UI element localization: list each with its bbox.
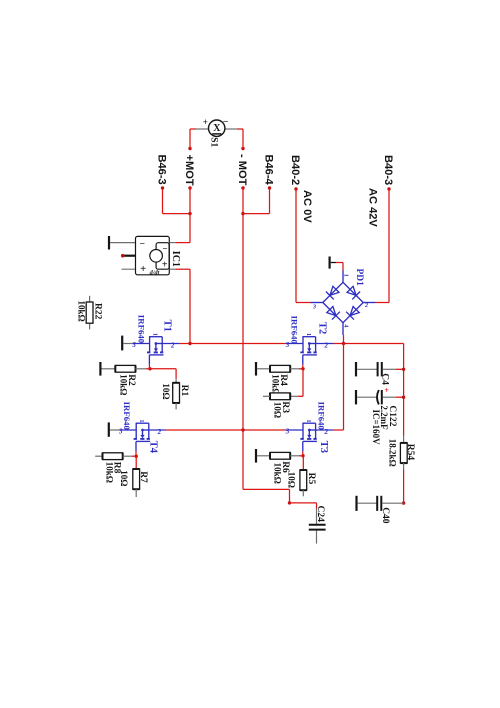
svg-text:B46-3: B46-3 <box>156 155 168 185</box>
capacitor C122 <box>377 390 382 404</box>
bridge left pin stub <box>311 302 323 304</box>
resistor R8 right lead <box>123 455 137 457</box>
wire minus rail to right column <box>344 344 404 436</box>
resistor R8 left stub <box>95 455 102 457</box>
node +MOT lower dot <box>188 186 191 189</box>
resistor R7 <box>133 469 140 489</box>
wire bridge top to bar <box>331 263 343 271</box>
ground bar bridge top <box>329 257 331 269</box>
capacitor C24 <box>309 525 326 530</box>
capacitor C4 name <box>380 373 390 385</box>
svg-text:AC 0V: AC 0V <box>301 190 313 223</box>
svg-text:C24: C24 <box>315 506 325 523</box>
IC1 outer minus mark <box>140 240 145 250</box>
capacitor C40 left lead <box>358 502 377 504</box>
resistor R7 value <box>119 470 129 486</box>
wire B40-2 / AC 0V to bridge AC1 <box>296 189 311 303</box>
svg-text:T4: T4 <box>147 441 158 454</box>
svg-text:- MOT: - MOT <box>236 154 248 186</box>
svg-text:AC 42V: AC 42V <box>366 188 378 227</box>
node -MOT lower dot <box>241 186 244 189</box>
node B46-4 terminal label <box>263 155 275 186</box>
bridge pin 2 mark <box>364 303 368 309</box>
svg-text:10kΩ: 10kΩ <box>105 462 115 483</box>
junction C4 on rail <box>402 368 405 371</box>
svg-text:3: 3 <box>131 341 136 349</box>
resistor R6 name <box>280 461 290 473</box>
resistor R4 left lead <box>257 368 270 370</box>
svg-text:S1: S1 <box>209 137 219 147</box>
resistor R22 leads <box>89 296 91 330</box>
wire bottom to C24 <box>290 503 317 509</box>
resistor R5 <box>300 470 307 490</box>
node B40-3 terminal dot <box>387 187 390 190</box>
bridge pin 1 mark <box>343 274 349 277</box>
wire IC1 bottom-right to T1 drain <box>169 269 190 343</box>
svg-text:IRF640: IRF640 <box>122 402 132 431</box>
capacitor C122 value <box>379 405 389 430</box>
motor S1 right wire <box>225 129 243 149</box>
resistor R22 <box>86 302 93 323</box>
resistor R3 <box>270 393 290 400</box>
wire R6 junction to R5 <box>302 456 304 470</box>
IC1 middle pin thick stub <box>124 255 136 257</box>
svg-text:B40-3: B40-3 <box>382 155 394 185</box>
wire T4 source to R8 junction <box>135 451 137 456</box>
capacitor C24 bottom stub <box>316 531 318 544</box>
junction C122 on rail <box>402 396 405 399</box>
ground bar R6 <box>255 449 257 463</box>
IC1 outer plus mark <box>140 263 146 275</box>
IC1 left top pin wire <box>110 242 135 244</box>
resistor R54 bottom lead <box>403 463 405 503</box>
svg-text:C4: C4 <box>380 373 390 385</box>
svg-text:d/dt: d/dt <box>150 269 160 276</box>
resistor R6 value <box>273 463 283 484</box>
svg-text:R22: R22 <box>93 303 103 320</box>
resistor R4 <box>270 365 290 372</box>
svg-text:PD1: PD1 <box>354 269 364 287</box>
IC1 left bottom pin wire <box>122 268 136 270</box>
junction +MOT/B46-3 <box>188 212 191 215</box>
svg-text:3: 3 <box>285 428 290 436</box>
svg-text:10kΩ: 10kΩ <box>118 374 128 395</box>
capacitor C122 plus mark <box>384 386 389 395</box>
wire T3 source to R6 junction <box>302 451 304 456</box>
resistor R1 <box>173 383 180 403</box>
wire B46-3 to +MOT junction <box>163 189 191 214</box>
svg-text:IRF640: IRF640 <box>289 316 299 345</box>
wire T1 gate bar to pin <box>123 343 132 345</box>
svg-text:1: 1 <box>152 333 159 336</box>
wire +MOT to IC1 pin top-right <box>169 214 190 243</box>
bridge PD1 name <box>354 269 364 287</box>
transistor T1 <box>131 315 179 365</box>
svg-text:1: 1 <box>305 333 312 336</box>
ground bar C4 <box>355 362 357 376</box>
svg-text:B46-4: B46-4 <box>263 155 275 186</box>
resistor R1 bottom stub <box>175 403 177 409</box>
motor S1 minus mark <box>222 116 228 126</box>
svg-text:−: − <box>162 243 167 253</box>
wire T1 source to R2 junction <box>148 365 150 369</box>
svg-text:T2: T2 <box>316 322 327 334</box>
svg-text:10Ω: 10Ω <box>161 383 171 399</box>
ground bar R2 <box>99 362 101 376</box>
svg-text:+: + <box>140 263 146 275</box>
wire B46-4 to -MOT junction <box>243 189 270 214</box>
motor S1 name <box>209 137 219 147</box>
svg-text:1: 1 <box>305 419 312 422</box>
bridge bottom pin stub <box>342 323 344 336</box>
capacitor C40 right lead <box>382 502 403 504</box>
node B46-3 terminal label <box>156 155 168 185</box>
junction bridge minus rail <box>342 342 345 345</box>
IC1 name <box>170 251 181 267</box>
node +MOT upper dot <box>188 147 191 150</box>
resistor R3 right lead <box>290 395 298 397</box>
node AC 0V label <box>301 190 313 223</box>
resistor R6 left lead <box>257 455 270 457</box>
junction -MOT on T4 drain rail <box>241 428 244 431</box>
svg-text:–: – <box>222 116 228 126</box>
svg-text:IRF640: IRF640 <box>317 402 327 431</box>
ground bar C40 <box>355 496 357 511</box>
transistor T3 <box>285 402 333 453</box>
svg-text:2: 2 <box>170 341 175 349</box>
svg-text:10Ω: 10Ω <box>119 470 129 486</box>
svg-text:+: + <box>384 386 389 395</box>
junction -MOT/B46-4 <box>241 212 244 215</box>
ground bar T1 gate <box>121 336 123 351</box>
node +MOT label <box>183 155 195 186</box>
capacitor C24 name <box>315 506 325 523</box>
junction T2 source <box>301 367 304 370</box>
svg-text:10kΩ: 10kΩ <box>273 463 283 484</box>
wire -MOT vertical bus <box>242 188 244 430</box>
resistor R1 name <box>179 385 189 397</box>
junction R54 / C40 <box>402 501 405 504</box>
motor S1 body <box>209 120 225 136</box>
op-amp IC1 body <box>136 236 170 274</box>
resistor R2 name <box>126 374 136 386</box>
wire T2 drain to bridge junction <box>333 343 344 345</box>
capacitor C40 <box>377 496 381 511</box>
IC1 inner plus mark <box>162 259 168 270</box>
resistor R7 name <box>138 471 148 483</box>
junction T4 source <box>135 455 138 458</box>
ground bar IC1 left pin <box>108 236 110 250</box>
junction T3 source <box>301 454 304 457</box>
transistor T2 <box>285 316 333 365</box>
junction T1 source <box>148 367 151 370</box>
svg-text:R54: R54 <box>405 444 415 461</box>
wire R2 junction to R1 <box>150 369 176 379</box>
svg-text:2: 2 <box>157 428 162 436</box>
junction bottom wire <box>288 501 291 504</box>
resistor R6 right lead <box>290 455 303 457</box>
resistor R1 top lead <box>175 379 177 383</box>
wire R8 junction to R7 <box>135 456 137 469</box>
resistor R22 value <box>76 301 86 322</box>
resistor R3 value <box>273 402 283 418</box>
node B40-2 terminal label <box>289 155 301 185</box>
wire bridge bottom to minus rail <box>343 335 345 344</box>
ground bar T4 gate <box>108 422 110 436</box>
wire T4 gate bar to pin <box>110 429 119 431</box>
svg-text:R5: R5 <box>306 473 316 485</box>
junction T1 drain / IC1 / T2 gate rail <box>188 342 191 345</box>
svg-text:1: 1 <box>138 419 145 422</box>
bridge pin 3 mark <box>312 305 316 311</box>
svg-text:10kΩ: 10kΩ <box>271 374 281 395</box>
ground bar C122 <box>355 390 357 404</box>
wire R4 junction to R3 <box>298 369 303 397</box>
resistor R3 left stub <box>263 395 270 397</box>
resistor R4 name <box>278 374 288 386</box>
svg-text:+MOT: +MOT <box>183 155 195 186</box>
resistor R54 <box>400 443 407 463</box>
resistor R22 name <box>93 303 103 320</box>
bridge pin 4 mark <box>343 324 349 327</box>
resistor R5 value <box>287 472 297 488</box>
capacitor C4 right lead <box>383 368 404 370</box>
resistor R7 bottom stub <box>135 489 137 497</box>
node B40-2 terminal dot <box>294 187 297 190</box>
svg-text:10Ω: 10Ω <box>287 472 297 488</box>
capacitor C122 rating <box>371 410 381 446</box>
ground bar R4 <box>255 362 257 376</box>
resistor R8 value <box>105 462 115 483</box>
node B46-3 terminal dot <box>161 186 164 189</box>
bridge right pin stub <box>363 302 375 304</box>
wire T2 source to R4 junction <box>302 365 304 369</box>
svg-text:−: − <box>140 240 145 250</box>
svg-text:T1: T1 <box>162 320 173 332</box>
resistor R2 right lead <box>136 368 151 370</box>
wire -MOT rail down to bottom <box>243 430 290 503</box>
resistor R8 <box>103 453 123 460</box>
resistor R54 top lead <box>403 436 405 443</box>
wire bridge rail down to T3 drain <box>333 344 344 431</box>
resistor R54 name <box>405 444 415 461</box>
svg-text:+: + <box>203 117 208 127</box>
svg-text:2: 2 <box>364 303 368 309</box>
svg-text:3: 3 <box>312 305 316 311</box>
resistor R5 bottom stub <box>302 490 304 496</box>
resistor R4 value <box>271 374 281 395</box>
resistor R2 <box>115 365 135 372</box>
bridge rectifier PD1 <box>323 282 363 322</box>
capacitor C4 <box>378 362 382 376</box>
capacitor C40 name <box>380 507 390 524</box>
svg-text:C40: C40 <box>380 507 390 524</box>
svg-text:2: 2 <box>323 341 328 349</box>
motor S1 plus mark <box>203 117 208 127</box>
node AC 42V label <box>366 188 378 227</box>
svg-text:3: 3 <box>285 341 290 349</box>
capacitor C122 right lead <box>383 396 404 398</box>
capacitor C24 top lead <box>316 509 318 525</box>
node -MOT label <box>236 154 248 186</box>
resistor R3 name <box>280 401 290 413</box>
svg-text:18.2kΩ: 18.2kΩ <box>387 439 397 467</box>
wire T1 drain to junction <box>180 343 190 345</box>
resistor R6 <box>270 452 290 459</box>
svg-text:X: X <box>213 123 221 134</box>
node -MOT upper dot <box>241 147 244 150</box>
svg-text:B40-2: B40-2 <box>289 155 301 185</box>
svg-text:10kΩ: 10kΩ <box>76 301 86 322</box>
svg-text:R7: R7 <box>138 471 148 483</box>
resistor R5 name <box>306 473 316 485</box>
svg-text:IC=160V: IC=160V <box>371 410 381 446</box>
resistor R4 right lead <box>290 368 303 370</box>
wire B40-3 / AC 42V to bridge AC2 <box>375 189 389 303</box>
svg-text:IC1: IC1 <box>170 251 181 267</box>
resistor R2 left lead <box>102 368 116 370</box>
IC1 middle pin junction dot <box>121 254 125 258</box>
IC1 inner minus mark <box>162 243 167 253</box>
svg-text:10Ω: 10Ω <box>273 402 283 418</box>
resistor R1 value <box>161 383 171 399</box>
wire +MOT down to junction <box>189 188 191 214</box>
wire T4 drain to T3 gate rail <box>166 429 286 431</box>
svg-text:R1: R1 <box>179 385 189 397</box>
resistor R54 value <box>387 439 397 467</box>
IC1 d/dt label <box>150 269 160 276</box>
resistor R2 value <box>118 374 128 395</box>
capacitor C4 left lead <box>357 368 377 370</box>
svg-text:IRF640: IRF640 <box>137 315 147 344</box>
svg-text:+: + <box>162 259 168 270</box>
transistor T4 <box>118 402 166 454</box>
bridge top pin stub <box>342 271 344 283</box>
resistor R8 name <box>112 462 122 474</box>
capacitor C122 left lead <box>357 396 376 398</box>
motor S1 left wire <box>190 129 209 149</box>
capacitor C122 name <box>387 405 397 426</box>
svg-text:T3: T3 <box>318 441 329 453</box>
wire drain rail to T2 gate <box>190 343 286 345</box>
node B46-4 terminal dot <box>268 186 271 189</box>
node B40-3 terminal label <box>382 155 394 185</box>
